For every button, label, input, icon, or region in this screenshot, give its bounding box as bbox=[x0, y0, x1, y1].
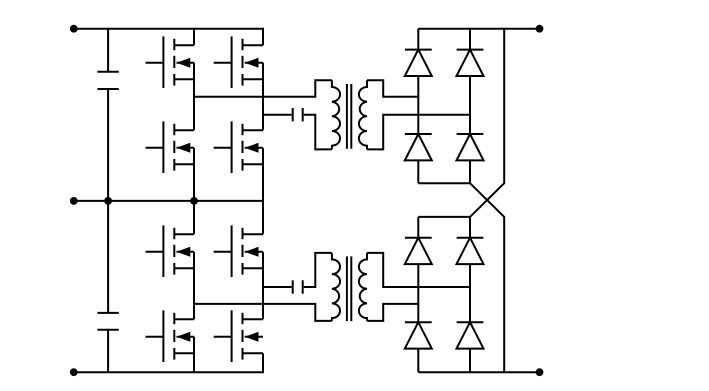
wire: T2 secondary bottom lead to rectifier AC (jog up) bbox=[367, 304, 418, 321]
wire: T1 primary bottom lead bbox=[314, 148, 332, 150]
wire: bottom-bridge positive rail bbox=[418, 216, 470, 218]
wire: top output rail bbox=[418, 28, 539, 30]
transistor Q5 (N-MOSFET) bbox=[146, 225, 195, 277]
wire: bottom-bridge positive rail down to D6 cathode bbox=[469, 217, 471, 238]
transistor Q3 (N-MOSFET) bbox=[146, 121, 195, 173]
node: top-left input terminal bbox=[70, 25, 78, 33]
diode D5 bbox=[405, 238, 432, 264]
capacitor C2 (lower input cap) bbox=[97, 313, 118, 330]
node: mid-left input terminal bbox=[70, 197, 78, 205]
diode D4 bbox=[457, 134, 484, 160]
transistor Q4 (N-MOSFET) bbox=[214, 121, 263, 173]
wire: C3 to T1 primary bottom lead (jog down) bbox=[304, 115, 316, 150]
wire: T2 primary bottom lead bbox=[314, 320, 332, 322]
wire: phase node B to T2 primary bottom lead (jog down) bbox=[194, 304, 315, 321]
diode D1 bbox=[405, 50, 432, 76]
wire: leg2 phase to C4 bbox=[263, 286, 292, 288]
node: top-right output terminal bbox=[536, 25, 544, 33]
diode D8 bbox=[457, 322, 484, 348]
wire: T2 primary top lead bbox=[314, 252, 332, 254]
wire: output rail down to D2 cathode bbox=[469, 29, 471, 50]
node: bottom-left input terminal bbox=[70, 368, 78, 376]
wire: D5 anode to D7 cathode (AC node) bbox=[417, 264, 419, 322]
wire: Q6 body/source down to Q8 drain bbox=[262, 252, 264, 319]
wire: Q4 body/source through mid rail to Q6 drain bbox=[262, 148, 264, 234]
wire: Q5 body/source down to Q7 drain (phase node B) bbox=[193, 252, 195, 319]
wire: D8 anode to bottom output rail bbox=[469, 349, 471, 373]
transformer T2 secondary winding bbox=[359, 253, 367, 321]
wire: D4 anode to top-bridge negative rail bbox=[469, 160, 471, 183]
transistor Q2 (N-MOSFET) bbox=[214, 36, 263, 88]
diode D3 bbox=[405, 134, 432, 160]
diode D2 bbox=[457, 50, 484, 76]
diode D7 bbox=[405, 322, 432, 348]
wire: Q2 body/source down to Q4 drain bbox=[262, 63, 264, 130]
wire: Q3 body/source through mid rail to Q5 drain bbox=[193, 148, 195, 234]
wire: bottom output rail bbox=[418, 371, 539, 373]
transistor Q7 (N-MOSFET) bbox=[146, 310, 195, 362]
wire: top-bridge negative rail crossover down to bottom output rail bbox=[470, 183, 504, 372]
wire: C1 to mid rail bbox=[107, 89, 109, 201]
transformer T2 core bbox=[347, 256, 351, 321]
transformer T1 core bbox=[347, 84, 351, 149]
wire: T2 secondary top lead to rectifier AC (jog down, crosses left leg) bbox=[367, 253, 470, 287]
node: junction leg1 / mid rail bbox=[190, 197, 198, 205]
transformer T2 primary winding bbox=[332, 253, 340, 321]
node: bottom-right output terminal bbox=[536, 368, 544, 376]
capacitor C4 (T2 series blocking cap) bbox=[293, 280, 303, 293]
wire: C4 to T2 primary top lead (jog up) bbox=[304, 253, 316, 287]
wire: T1 secondary top lead to rectifier AC (jog down) bbox=[367, 80, 418, 97]
wire: leg2 phase to C3 bbox=[263, 114, 292, 116]
wire: D7 anode to bottom output rail bbox=[417, 349, 419, 373]
wire: bottom input rail with corner up to Q8 source bbox=[74, 353, 263, 372]
capacitor C1 (upper input cap) bbox=[97, 72, 118, 89]
wire: D6 anode to D8 cathode (AC node) bbox=[469, 264, 471, 322]
transistor Q6 (N-MOSFET) bbox=[214, 225, 263, 277]
wire: Q7 body/source to bottom rail bbox=[193, 337, 195, 372]
wire: top rail to Q1 drain bbox=[193, 29, 195, 46]
wire: bottom-bridge positive rail down to D5 cathode bbox=[417, 217, 419, 238]
transistor Q1 (N-MOSFET) bbox=[146, 36, 195, 88]
wire: D1 anode to D3 cathode (AC node) bbox=[417, 76, 419, 134]
transistor Q8 (N-MOSFET) bbox=[214, 310, 263, 362]
wire: phase node A to T1 primary top lead (jog up) bbox=[194, 80, 315, 97]
wire: top input rail with corner down to Q2 drain bbox=[74, 29, 263, 46]
wire: output rail down to D1 cathode bbox=[417, 29, 419, 50]
transformer T1 primary winding bbox=[332, 80, 340, 149]
wire: mid input rail bbox=[74, 200, 264, 202]
wire: D2 anode to D4 cathode (AC node) bbox=[469, 76, 471, 134]
node: junction capacitor column / mid rail bbox=[104, 197, 112, 205]
wire: top-bridge negative rail bbox=[418, 182, 470, 184]
wire: inner vertical, top output rail down with crossover to bottom-bridge positive rail bbox=[470, 29, 504, 217]
wire: T1 secondary bottom lead to rectifier AC (jog up, crosses left leg) bbox=[367, 115, 470, 150]
capacitor C3 (T1 series blocking cap) bbox=[293, 108, 303, 121]
wire: top rail to C1 bbox=[107, 29, 109, 72]
wire: Q1 body/source down to Q3 drain (phase node A) bbox=[193, 63, 195, 130]
wire: T1 primary top lead bbox=[314, 79, 332, 81]
wire: C2 to bottom rail bbox=[107, 330, 109, 373]
wire: mid rail to C2 bbox=[107, 201, 109, 313]
diode D6 bbox=[457, 238, 484, 264]
transformer T1 secondary winding bbox=[359, 80, 367, 149]
wire: D3 anode to top-bridge negative rail bbox=[417, 160, 419, 183]
